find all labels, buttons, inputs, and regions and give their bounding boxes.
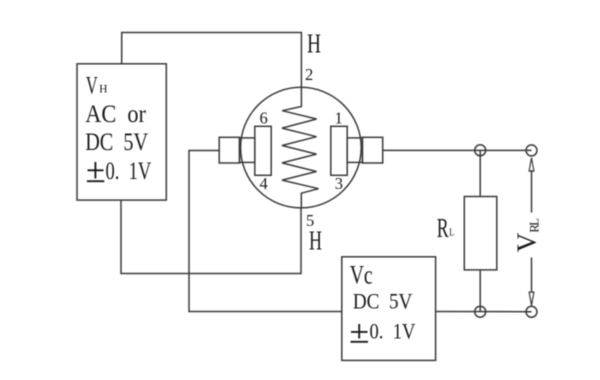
wire top bus from VH box to pin 2: [122, 33, 302, 88]
terminal node top-left: [475, 145, 486, 156]
wire VH box bottom to pin 5: [121, 200, 301, 274]
svg-text:AC or: AC or: [85, 101, 146, 128]
left pin tab: [219, 137, 239, 163]
label plus-minus 0.1V: [87, 162, 104, 181]
svg-text:VH: VH: [86, 72, 108, 99]
svg-text:H: H: [307, 29, 321, 59]
svg-text:DC 5V: DC 5V: [85, 129, 148, 156]
voltage source VH box: [77, 64, 166, 200]
right electrode plate: [331, 126, 347, 175]
left electrode connector: [240, 138, 255, 163]
svg-text:4: 4: [260, 174, 268, 193]
sensor body circle: [241, 87, 362, 208]
terminal node top-right: [526, 145, 537, 156]
VRL arrow line top segment with up arrowhead: [531, 170, 533, 213]
svg-text:6: 6: [260, 109, 268, 128]
wire right tab to right terminals: [383, 149, 532, 151]
label plus-minus 0.1V: [351, 324, 369, 342]
left electrode plate: [255, 126, 271, 175]
svg-text:H: H: [309, 226, 322, 256]
svg-text:2: 2: [305, 65, 313, 84]
voltage source Vc box: [342, 257, 436, 361]
wire Vc box right to bottom terminals: [436, 311, 532, 313]
svg-text:DC 5V: DC 5V: [353, 288, 412, 313]
svg-text:VRL: VRL: [511, 218, 541, 252]
right pin tab: [362, 137, 382, 163]
VRL arrow line bottom segment with down arrowhead: [531, 258, 533, 293]
svg-text:0. 1V: 0. 1V: [370, 318, 416, 343]
right electrode connector: [347, 138, 362, 163]
wire RL bottom to junction: [479, 270, 481, 312]
svg-text:0. 1V: 0. 1V: [106, 158, 152, 185]
svg-text:RL: RL: [437, 213, 455, 243]
wire left electrode to Vc box: [189, 151, 342, 312]
terminal node bottom-right: [526, 306, 537, 317]
load resistor RL: [464, 197, 497, 270]
wire junction to RL top: [479, 150, 481, 196]
svg-text:Vc: Vc: [350, 261, 373, 290]
terminal node bottom-left: [475, 306, 486, 317]
svg-text:3: 3: [335, 174, 343, 193]
svg-text:1: 1: [335, 109, 343, 128]
heater coil (zigzag) with pin 2 and pin 5 leads: [282, 88, 319, 208]
